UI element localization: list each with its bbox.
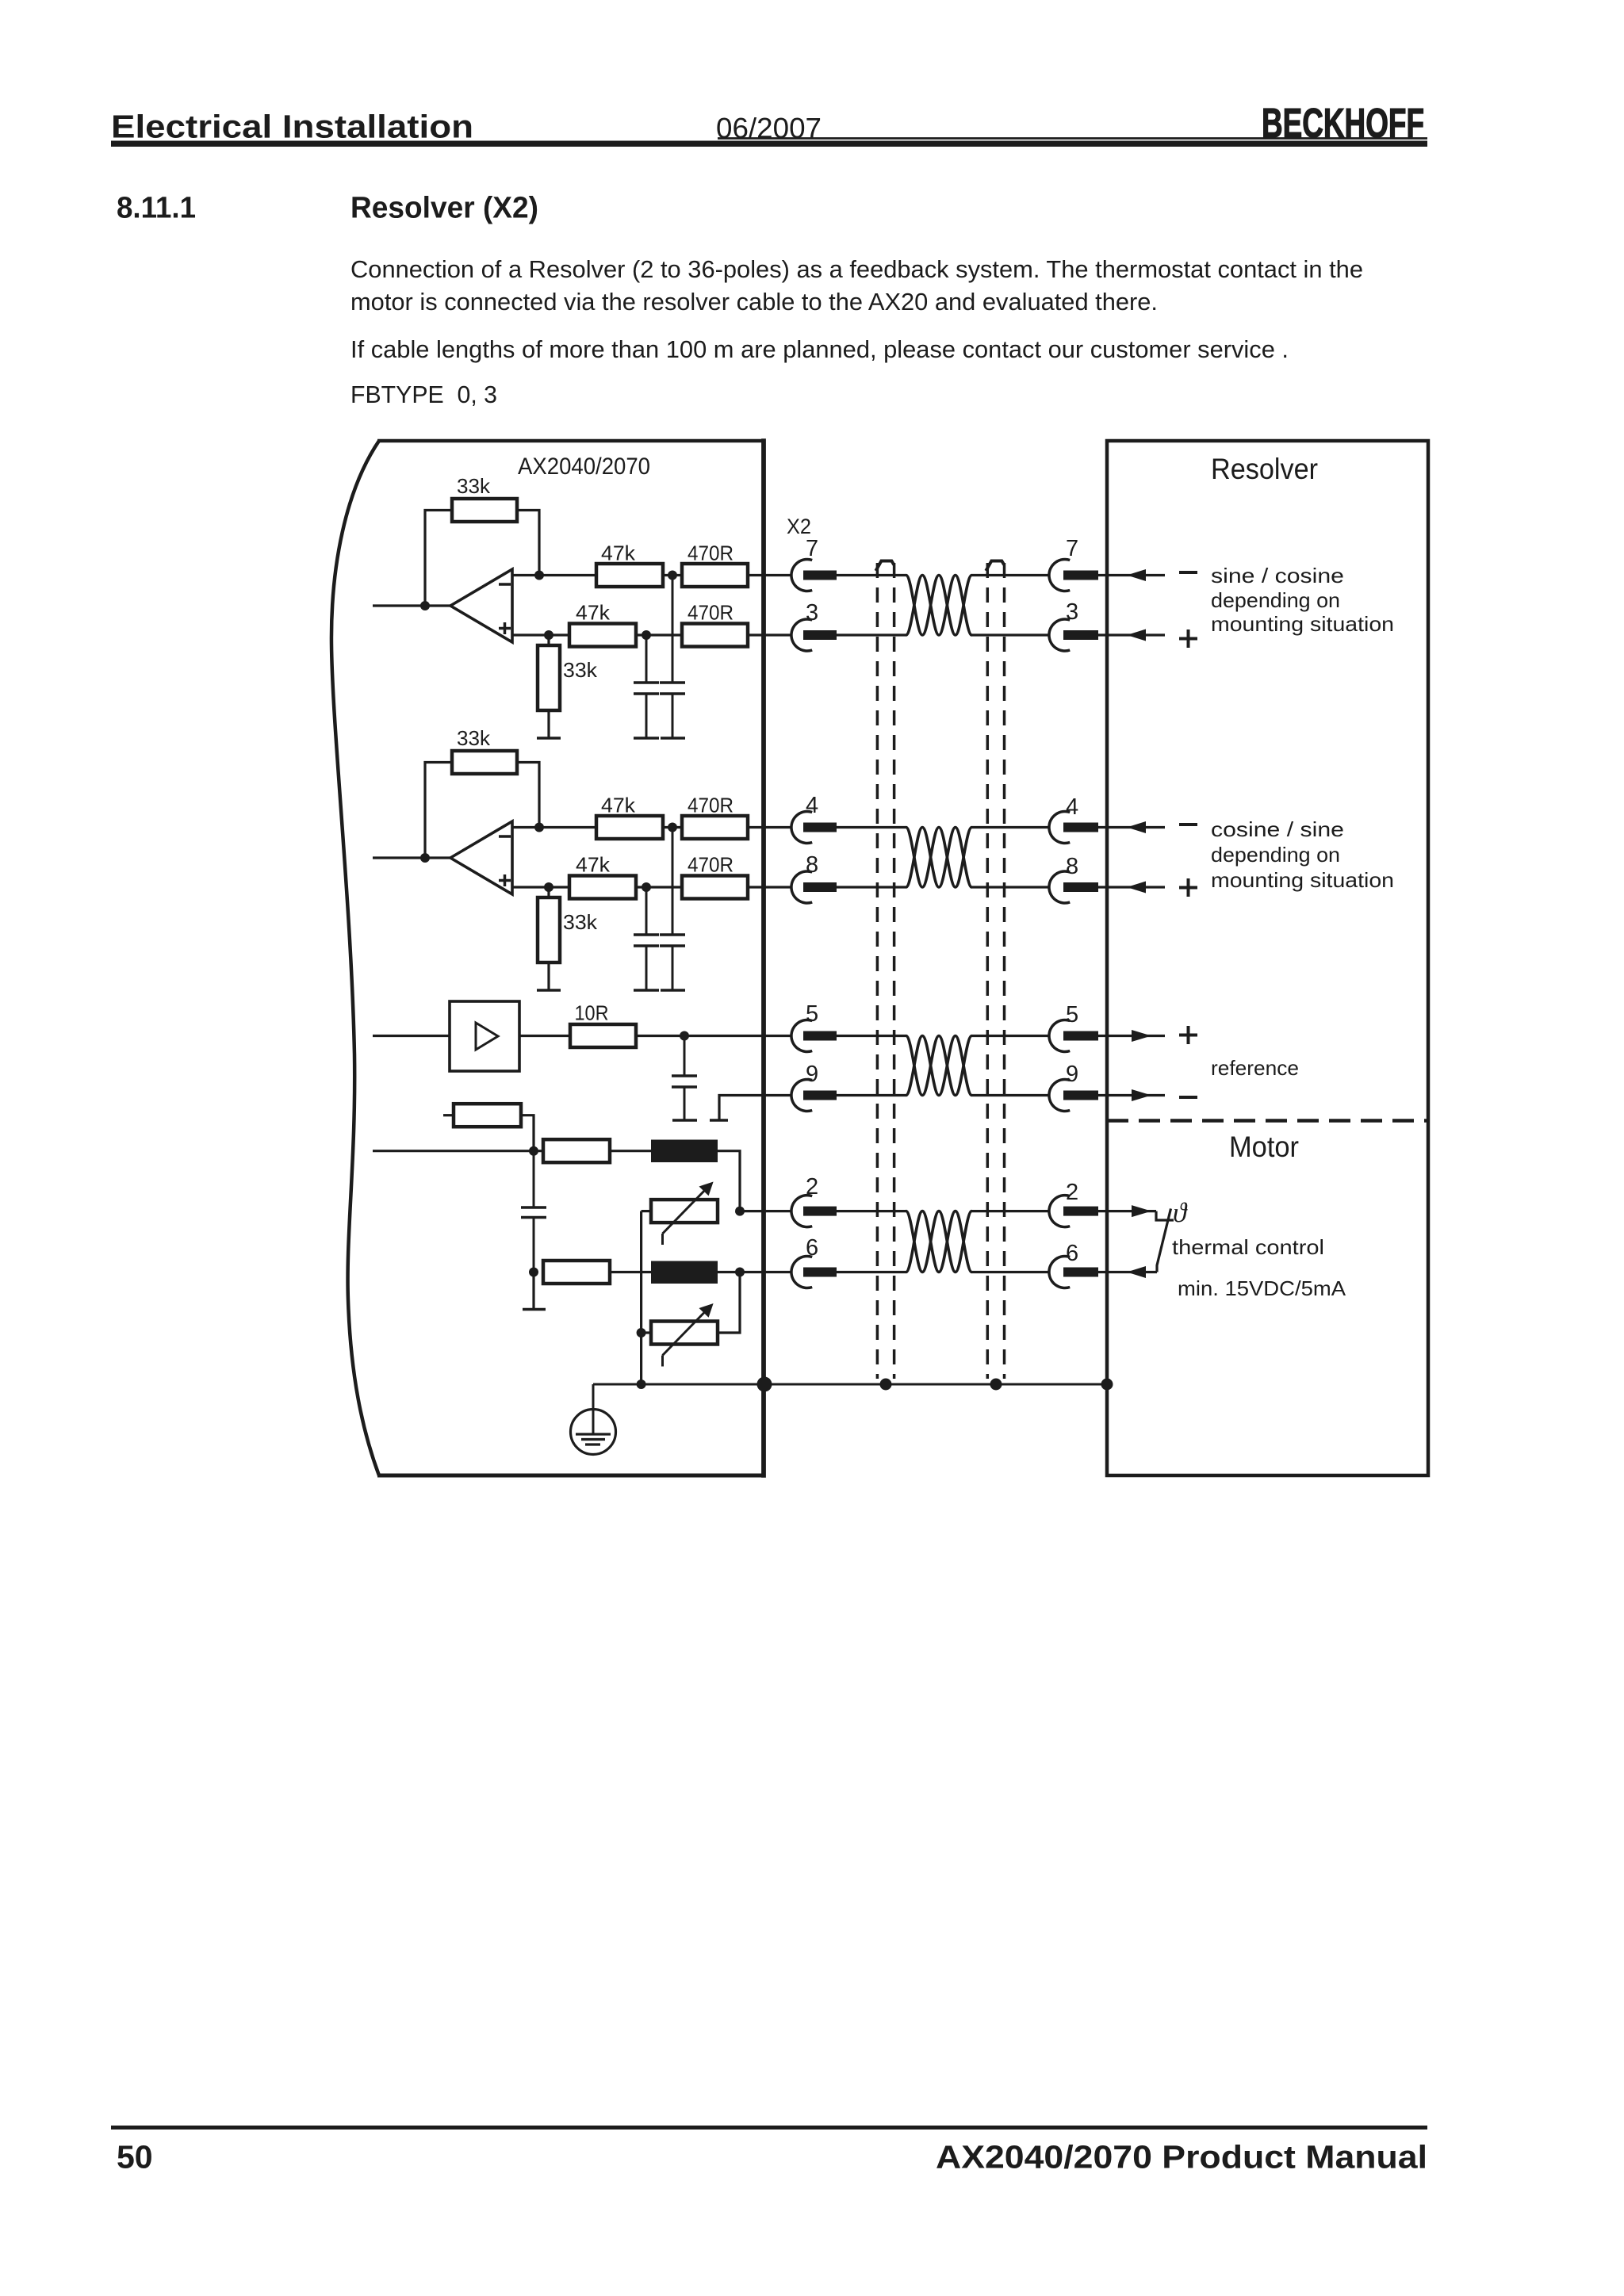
connector pin 7 (resolver side) [1049,560,1070,591]
wire pin 2 to thermal contact [1098,1210,1156,1212]
svg-text:470R: 470R [688,853,733,877]
twisted pair [906,1036,972,1096]
wire row B below junction to bar [532,1272,534,1310]
svg-text:thermal control: thermal control [1172,1235,1324,1259]
motor compartment dashed divider [1107,1119,1428,1123]
wire row A to pin 2 line [718,1151,740,1211]
resistor 47k (plus line) [569,624,636,647]
common bar below row B [523,1308,546,1311]
wire pin 2 line to connector [740,1210,791,1212]
node input junction [420,601,430,610]
svg-text:10R: 10R [575,1001,609,1025]
wire op-amp input [373,856,450,859]
wire row B to ferrite [610,1271,651,1273]
wire pin 7 into resolver with arrow [1098,574,1165,576]
wire common leg vertical [640,1211,642,1384]
svg-text:Resolver: Resolver [1211,453,1318,485]
ferrite bead row B [651,1261,718,1284]
svg-text:7: 7 [806,536,818,561]
twisted pair [906,576,972,636]
connector pin 9 (resolver side) [1049,1080,1070,1112]
svg-text:FBTYPE 0, 3: FBTYPE 0, 3 [350,381,497,408]
svg-text:33k: 33k [563,910,598,934]
node rail at shield 1 [880,1379,892,1391]
node row B junction [529,1268,538,1277]
svg-text:reference: reference [1211,1056,1299,1080]
svg-text:8: 8 [1066,854,1078,879]
svg-text:depending on: depending on [1211,843,1340,867]
node rail at shield 2 [990,1379,1002,1391]
wire plus input line [512,633,569,636]
wire row B to pin 6 [718,1271,791,1273]
connector X2 pin 6 (drive side) [791,1257,812,1288]
varistor RV2 [651,1322,718,1345]
connector X2 pin 2 (drive side) [791,1196,812,1227]
svg-text:47k: 47k [601,541,636,565]
svg-text:33k: 33k [457,726,491,750]
svg-text:motor is connected via the res: motor is connected via the resolver cabl… [350,289,1158,316]
wire pin 6 from thermal contact [1098,1271,1157,1273]
capacitor C-a (plus line) [645,635,648,683]
ferrite bead row A [651,1140,718,1163]
common bar at pin 9 return [710,1119,728,1122]
capacitor C-a (plus line) [645,887,648,935]
node RV1 output junction [735,1207,745,1216]
resistor 47k (minus line) [596,816,663,839]
connector X2 pin 9 (drive side) [791,1080,812,1112]
resistor stub (pull-up) [443,1114,454,1116]
svg-text:X2: X2 [787,515,811,538]
wire pin 8 into resolver with arrow [1098,886,1165,888]
resistor 470R (minus line) [682,816,748,839]
wire cable conductor (top of pair) [837,1035,906,1037]
node feedback to minus line [534,571,544,580]
minus sign (pin 7) [1179,571,1197,574]
wire minus input line [512,826,596,828]
node rail at resolver box [1101,1379,1113,1391]
svg-text:AX2040/2070 Product Manual: AX2040/2070 Product Manual [936,2139,1427,2175]
wire buffer input [373,1035,450,1037]
svg-text:33k: 33k [563,658,598,682]
svg-text:min. 15VDC/5mA: min. 15VDC/5mA [1178,1276,1346,1300]
node plus line junction at 33k [544,882,553,892]
common bar under capacitor C-b [661,989,685,992]
minus sign (pin 4) [1179,823,1197,826]
wire plus input line [512,886,569,888]
capacitor thermal filter [533,1151,535,1207]
svg-text:6: 6 [806,1235,818,1261]
connector X2 pin 7 (drive side) [791,560,812,591]
wire pin 4 into resolver with arrow [1098,826,1165,828]
plus sign (pin 8) [1179,886,1197,890]
svg-text:cosine / sine: cosine / sine [1211,817,1344,841]
header date underline [718,137,1427,140]
wire pin 5 into resolver with arrow [1098,1035,1165,1037]
node minus line junction [668,571,677,580]
connector pin 5 (resolver side) [1049,1020,1070,1052]
svg-text:mounting situation: mounting situation [1211,612,1394,636]
svg-text:3: 3 [1066,599,1078,625]
minus sign (pin 9) [1179,1096,1197,1099]
protective earth symbol [571,1410,616,1455]
resistor 33k feedback [452,499,517,522]
node RV2 left junction [637,1328,646,1337]
common bar under capacitor C-a [634,989,659,992]
svg-text:If cable lengths of more than: If cable lengths of more than 100 m are … [350,336,1289,363]
svg-text:470R: 470R [688,794,733,817]
svg-text:470R: 470R [688,541,733,565]
wire feedback loop [425,511,452,607]
resistor 10R [570,1024,636,1047]
capacitor C-b (minus line) [672,828,674,936]
svg-text:sine / cosine: sine / cosine [1211,564,1344,587]
node feedback to minus line [534,823,544,832]
connector X2 pin 4 (drive side) [791,812,812,844]
svg-text:6: 6 [1066,1241,1078,1266]
reference buffer amplifier U3 [450,1001,519,1071]
svg-text:8.11.1: 8.11.1 [117,191,196,224]
resistor row B [543,1261,610,1284]
connector pin 3 (resolver side) [1049,619,1070,651]
wire op-amp input [373,604,450,607]
connector pin 8 (resolver side) [1049,871,1070,903]
node row B right junction [735,1268,745,1277]
svg-text:Electrical Installation: Electrical Installation [111,109,473,145]
AX2040/2070 drive enclosure box [331,441,379,1475]
header rule [111,140,1427,147]
wire buffer output [519,1035,570,1037]
svg-text:AX2040/2070: AX2040/2070 [518,453,650,480]
plus sign (pin 5) [1179,1034,1197,1037]
common bar under capacitor C-b [661,737,685,740]
wire rail to earth symbol [592,1384,595,1410]
wire cable conductor (top of pair) [837,826,906,828]
resistor 47k (minus line) [596,564,663,587]
wire pin 3 into resolver with arrow [1098,633,1165,636]
resistor row A [543,1139,610,1162]
wire minus input line [512,574,596,576]
connector pin 4 (resolver side) [1049,812,1070,844]
wire row A to ferrite [610,1150,651,1152]
wire cable conductor (bottom of pair) [837,633,906,636]
wire cable conductor (bottom of pair) [837,1094,906,1096]
svg-text:mounting situation: mounting situation [1211,868,1394,892]
varistor RV1 (pin 2 line) [651,1200,718,1223]
node reference junction [680,1031,689,1041]
wire cable conductor (top of pair) [837,574,906,576]
common bar under 33k [537,989,561,992]
svg-text:Motor: Motor [1229,1131,1299,1163]
common bar under reference capacitor [672,1119,697,1122]
resistor 33k feedback [452,751,517,774]
svg-text:Connection of a Resolver (2 to: Connection of a Resolver (2 to 36-poles)… [350,256,1363,283]
svg-text:3: 3 [806,600,818,626]
capacitor reference filter [684,1036,686,1077]
svg-text:47k: 47k [576,601,611,625]
op-amp U1 [450,569,512,642]
plus sign (pin 3) [1179,637,1197,641]
resistor 470R (minus line) [682,564,748,587]
svg-text:5: 5 [806,1001,818,1027]
svg-text:9: 9 [806,1062,818,1087]
thermal switch fixed contact [1156,1211,1174,1220]
svg-text:7: 7 [1066,536,1078,561]
svg-text:2: 2 [1066,1180,1078,1205]
wire feedback loop [425,763,452,859]
svg-text:50: 50 [117,2139,153,2175]
footer rule [111,2126,1427,2130]
connector pin 2 (resolver side) [1049,1196,1070,1227]
wire cable conductor (top of pair) [837,1210,906,1212]
thermal switch blade [1157,1209,1171,1272]
svg-text:5: 5 [1066,1002,1078,1027]
connector X2 pin 3 (drive side) [791,619,812,651]
resistor 47k (plus line) [569,876,636,899]
resistor 33k to common [547,887,550,897]
svg-text:9: 9 [1066,1062,1078,1087]
resistor 470R (plus line) [682,624,748,647]
connector pin 6 (resolver side) [1049,1257,1070,1288]
svg-text:470R: 470R [688,601,733,625]
resistor 33k to common [547,635,550,645]
wire stub to row A [521,1115,534,1151]
wire cable conductor (bottom of pair) [837,886,906,888]
node plus line junction at caps [642,882,651,892]
svg-text:Resolver (X2): Resolver (X2) [350,191,538,224]
cable shield 1 (dashed) [876,563,879,1379]
svg-text:depending on: depending on [1211,588,1340,612]
node plus line junction at caps [642,630,651,640]
wire RV2 left [642,1331,651,1334]
wire reference line to pin 5 [636,1035,791,1037]
node minus line junction [668,823,677,832]
resistor 470R (plus line) [682,876,748,899]
common bar under capacitor C-a [634,737,659,740]
resolver-motor enclosure box [1107,441,1428,1475]
common bar under 33k [537,737,561,740]
node input junction [420,853,430,863]
node rail at enclosure edge [757,1377,772,1392]
connector X2 pin 5 (drive side) [791,1020,812,1052]
node row A junction [529,1146,538,1156]
connector X2 pin 8 (drive side) [791,871,812,903]
wire pin 9 into resolver with arrow [1098,1094,1165,1096]
svg-text:47k: 47k [601,794,636,817]
op-amp U2 [450,821,512,894]
twisted pair [906,828,972,888]
svg-text:33k: 33k [457,474,491,498]
svg-text:47k: 47k [576,853,611,877]
wire shield-ground rail [593,1383,1107,1386]
svg-text:2: 2 [806,1174,818,1200]
svg-text:8: 8 [806,852,818,878]
node plus line junction at 33k [544,630,553,640]
twisted pair [906,1211,972,1272]
wire RV2 right to row B [718,1272,740,1334]
wire cable conductor (bottom of pair) [837,1271,906,1273]
svg-text:ϑ: ϑ [1173,1197,1188,1228]
wire RV1 left to common leg [642,1210,651,1212]
wire thermal row A [373,1150,543,1152]
capacitor C-b (minus line) [672,576,674,683]
svg-text:4: 4 [1066,794,1078,820]
svg-text:4: 4 [806,793,818,818]
node rail at common leg [637,1380,646,1389]
wire pin 9 return [719,1096,791,1121]
svg-text:BECKHOFF: BECKHOFF [1262,101,1424,147]
cable shield 2 (dashed) [986,563,990,1379]
